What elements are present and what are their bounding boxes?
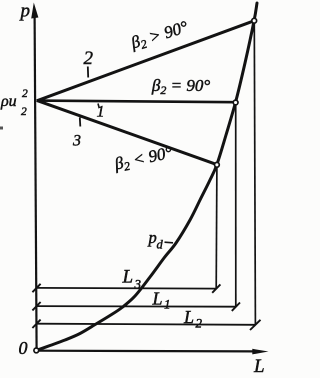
- line 1 (beta2 = 90): [37, 101, 236, 103]
- tick slash left end L2: [32, 320, 40, 328]
- x axis (L): [38, 349, 269, 355]
- svg-text:ρu: ρu: [0, 93, 17, 110]
- label L2: [183, 307, 203, 331]
- curve p_d (dynamic pressure parabola): [37, 3, 257, 350]
- node circle lower intersection: [215, 162, 220, 167]
- label 1 with leader tick: [97, 104, 105, 121]
- svg-text:L: L: [183, 307, 194, 327]
- node circle middle intersection: [233, 100, 238, 105]
- node circle at origin: [34, 348, 39, 353]
- svg-text:2: 2: [84, 48, 94, 69]
- line 3 (beta2 < 90): [37, 100, 217, 164]
- svg-text:d: d: [157, 238, 164, 252]
- label L3: [122, 267, 142, 292]
- label 2 with leader tick: [84, 48, 94, 78]
- vertical drop line from lower intersection (L3): [215, 167, 218, 289]
- node circle top intersection: [252, 18, 257, 23]
- svg-text:2: 2: [22, 88, 28, 100]
- svg-text:L: L: [152, 289, 163, 309]
- svg-text:0: 0: [19, 338, 28, 358]
- y axis (p): [31, 3, 38, 351]
- scan smudge at left edge: [0, 127, 3, 130]
- label 3 with leader tick: [72, 118, 81, 150]
- svg-text:p: p: [19, 1, 31, 22]
- label L1: [152, 289, 171, 312]
- svg-text:1: 1: [164, 297, 171, 312]
- svg-text:3: 3: [72, 133, 81, 150]
- dimension line L1: [36, 305, 235, 308]
- svg-text:p: p: [148, 228, 157, 247]
- svg-text:1: 1: [97, 104, 105, 121]
- tick slash right end L3: [212, 284, 220, 292]
- label p_d with leader: [148, 228, 174, 252]
- tick slash left end L3: [32, 284, 40, 292]
- svg-text:β2 < 90°: β2 < 90°: [112, 143, 175, 176]
- label rho u2 squared: [0, 88, 28, 118]
- vertical drop line from top intersection (L2): [254, 23, 255, 325]
- dimension line L2: [36, 324, 255, 325]
- svg-text:L: L: [122, 267, 134, 288]
- dimension line L3: [36, 287, 216, 290]
- tick slash left end L1: [32, 302, 40, 310]
- vertical drop line from middle intersection (L1): [235, 105, 237, 307]
- svg-text:2: 2: [21, 106, 27, 118]
- svg-text:L: L: [253, 356, 265, 377]
- svg-text:2: 2: [196, 316, 203, 331]
- svg-text:3: 3: [134, 277, 142, 292]
- line 2 (beta2 > 90): [37, 21, 254, 101]
- svg-text:β2 = 90°: β2 = 90°: [151, 76, 210, 97]
- tick slash right end L2: [250, 320, 261, 330]
- tick slash right end L1: [232, 303, 240, 311]
